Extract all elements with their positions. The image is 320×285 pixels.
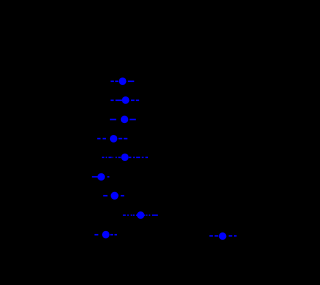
error bar P1 — [111, 80, 135, 82]
marker P8 — [137, 211, 145, 219]
marker P6 — [97, 173, 105, 181]
error bar P7 — [103, 195, 124, 197]
error bar P5 (fine dashes) — [102, 156, 148, 158]
marker P7 — [111, 192, 119, 200]
marker P4 — [110, 135, 118, 143]
error bar P4 — [97, 138, 127, 140]
error bar P9 — [95, 234, 118, 236]
marker P1 — [119, 77, 127, 85]
error bar P8 (fine dashes) — [123, 214, 158, 216]
marker P3 — [121, 116, 129, 124]
error bar P2 — [111, 99, 140, 101]
marker P2 — [122, 96, 130, 104]
marker P10 — [219, 232, 227, 240]
marker P9 — [102, 231, 110, 239]
error bar P6 — [92, 176, 110, 178]
error bar P3 — [110, 119, 136, 121]
marker P5 — [121, 153, 128, 161]
error bar P10 — [209, 235, 236, 237]
